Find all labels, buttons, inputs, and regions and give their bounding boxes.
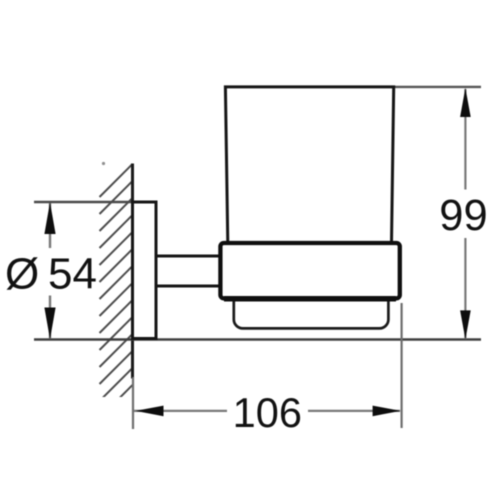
glass tumbler body [225,87,393,250]
dimension 99: bottom arrowhead [460,310,471,339]
wall hatching [100,164,133,418]
dimension Ø54: bottom arrowhead [44,308,55,340]
holder arm bottom line [155,285,223,288]
dimension 106: dimension line [134,410,400,412]
dimension Ø54: dimension line [49,203,51,339]
holder ring bottom rim [224,296,396,302]
dimension 99: top arrowhead [460,88,471,117]
holder arm top line [155,255,223,258]
wall surface line [131,164,134,379]
extension line top of Ø54 [34,201,131,204]
glass bottom [234,288,389,328]
dimension Ø54: top arrowhead [44,202,55,234]
dimension 99: dimension line [464,89,466,339]
extension line top of 99 [392,86,481,88]
svg-text:106: 106 [233,389,302,436]
dimension 106: left arrowhead [136,406,164,417]
bottom extension line (base line) [34,338,481,341]
dimension 106: right extension line [401,303,403,428]
holder ring (side view) [220,243,399,298]
stray dot artifact [102,162,105,165]
dimension 106: left extension line [132,377,134,429]
svg-text:Ø 54: Ø 54 [5,250,97,299]
svg-text:99: 99 [439,192,487,240]
mounting plate (wall rosette, side view) [133,202,157,339]
dimension 106: right arrowhead [373,406,401,417]
